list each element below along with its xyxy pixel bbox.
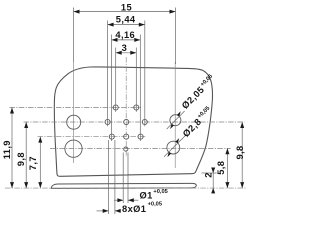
centerline row1 bbox=[10, 107, 142, 109]
centerline row3 bbox=[38, 136, 147, 138]
hole row1 right bbox=[134, 105, 139, 110]
dimension 3 bbox=[116, 43, 137, 112]
hole row2 left bbox=[105, 119, 110, 124]
centerline row2 bbox=[24, 121, 245, 123]
hole bottom center bbox=[124, 147, 128, 151]
dimension 2 right bbox=[202, 168, 217, 194]
svg-text:7,7: 7,7 bbox=[28, 156, 38, 170]
flange strip bbox=[51, 183, 196, 188]
svg-text:3: 3 bbox=[122, 43, 128, 53]
hole right upper (Ø2,05) bbox=[170, 115, 181, 126]
svg-text:11,9: 11,9 bbox=[2, 140, 12, 159]
svg-text:+0,05: +0,05 bbox=[148, 201, 162, 207]
centerline middle column vertical bbox=[125, 57, 127, 157]
label Ø2,8 with leader bbox=[164, 105, 214, 157]
hole row1 left bbox=[113, 105, 118, 110]
dimension 7,7 left bbox=[28, 137, 42, 189]
dimension Ø1 bottom hole bbox=[114, 153, 168, 204]
dimension 8xØ1 bbox=[97, 140, 163, 214]
hole right lower (Ø2,8) bbox=[167, 141, 180, 154]
svg-text:+0,05: +0,05 bbox=[153, 189, 167, 195]
svg-text:8xØ1: 8xØ1 bbox=[122, 204, 146, 214]
hole row2 middle bbox=[124, 119, 129, 124]
centerline right circles vertical bbox=[174, 62, 176, 168]
hole row3 left bbox=[109, 134, 114, 139]
hole row3 middle bbox=[124, 134, 129, 139]
hole left lower large bbox=[65, 140, 82, 157]
svg-text:4,16: 4,16 bbox=[115, 30, 135, 40]
hole row2 right bbox=[142, 119, 147, 124]
svg-text:5,44: 5,44 bbox=[116, 15, 136, 25]
body outline bbox=[54, 67, 212, 176]
svg-text:Ø2,05: Ø2,05 bbox=[180, 85, 206, 111]
dimension 5,8 right bbox=[216, 148, 229, 188]
svg-text:2: 2 bbox=[204, 172, 214, 178]
dimension 9,8 right bbox=[235, 122, 245, 188]
dimension 5,44 bbox=[108, 15, 145, 127]
svg-text:Ø1: Ø1 bbox=[140, 190, 153, 200]
dimension 9,8 left bbox=[16, 122, 28, 188]
dimension 4,16 bbox=[112, 30, 141, 141]
centerline left circles vertical bbox=[73, 62, 75, 163]
svg-text:9,8: 9,8 bbox=[16, 152, 26, 166]
svg-text:+0,05: +0,05 bbox=[197, 105, 211, 119]
svg-text:5,8: 5,8 bbox=[216, 161, 226, 175]
dimension 15 bbox=[74, 3, 176, 64]
hole left upper large bbox=[67, 115, 81, 129]
svg-text:9,8: 9,8 bbox=[235, 145, 245, 159]
svg-text:15: 15 bbox=[121, 3, 132, 13]
centerline lower holes bbox=[50, 148, 231, 150]
hole row3 right bbox=[138, 134, 143, 139]
label Ø2,05 with leader bbox=[167, 74, 217, 130]
dimension 11,9 left bbox=[2, 108, 14, 189]
centerline bottom reference bbox=[5, 187, 246, 189]
